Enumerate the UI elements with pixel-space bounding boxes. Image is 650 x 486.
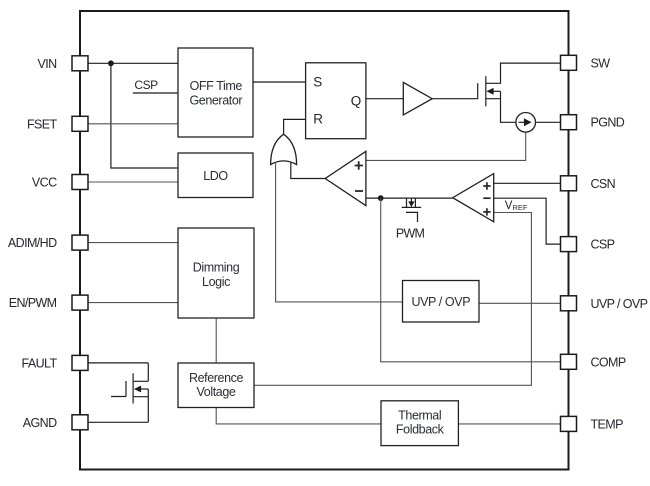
svg-text:R: R xyxy=(313,112,323,127)
svg-text:COMP: COMP xyxy=(591,355,626,369)
svg-text:UVP / OVP: UVP / OVP xyxy=(411,295,470,309)
svg-text:ADIM/HD: ADIM/HD xyxy=(8,236,57,250)
node VIN junction dot xyxy=(108,60,114,66)
svg-text:FSET: FSET xyxy=(27,117,58,131)
wire FAULT to fault FET drain xyxy=(88,362,148,364)
transistor Q3 fault FET xyxy=(111,363,148,422)
wire Dimming Logic to Reference Voltage xyxy=(215,318,217,363)
wire current sense to comparator U2 non-inverting input xyxy=(366,132,526,160)
OR gate xyxy=(271,134,297,164)
block Reference Voltage xyxy=(178,363,254,408)
svg-text:EN/PWM: EN/PWM xyxy=(9,296,57,310)
svg-text:Thermal: Thermal xyxy=(398,408,441,422)
svg-text:VCC: VCC xyxy=(32,176,57,190)
wire FSET to OFF Time Generator xyxy=(88,123,178,125)
wire ADIM/HD to Dimming Logic xyxy=(88,242,178,244)
wire latch Q to buffer xyxy=(366,98,403,100)
pin EN/PWM xyxy=(9,295,88,310)
wire EN/PWM to Dimming Logic xyxy=(88,302,178,304)
wire CSN to comparator U3 top input xyxy=(494,182,561,184)
pin PGND xyxy=(561,115,625,130)
svg-text:VIN: VIN xyxy=(37,57,57,71)
wire current sense to PGND xyxy=(536,121,561,123)
wire OR gate output to latch R xyxy=(284,119,306,134)
svg-text:PGND: PGND xyxy=(591,116,625,130)
transistor Q1 source stub and wire to current sense xyxy=(486,91,516,122)
svg-text:AGND: AGND xyxy=(23,416,57,430)
wire Reference Voltage to Thermal Foldback xyxy=(216,408,381,424)
svg-text:UVP / OVP: UVP / OVP xyxy=(591,297,648,311)
current sense circle xyxy=(516,113,536,133)
wire comparator U2 output to OR gate right input xyxy=(291,163,325,179)
transistor Q1 power MOSFET gate wire xyxy=(432,83,478,98)
wire UVP/OVP to OR gate left input xyxy=(276,163,403,302)
wire Thermal Foldback to TEMP xyxy=(458,423,560,425)
svg-text:CSN: CSN xyxy=(591,177,616,191)
svg-text:TEMP: TEMP xyxy=(591,417,624,431)
pin CSN xyxy=(561,176,616,191)
svg-text:Generator: Generator xyxy=(189,93,242,107)
svg-text:Reference: Reference xyxy=(189,371,244,385)
svg-text:PWM: PWM xyxy=(396,227,425,241)
block UVP / OVP xyxy=(403,281,480,323)
node COMP junction dot xyxy=(378,195,384,201)
svg-text:Q: Q xyxy=(351,94,362,109)
wire CSP to comparator U3 middle input xyxy=(494,198,561,244)
wire VIN to OFF Time Generator xyxy=(88,62,178,64)
pin SW xyxy=(561,55,611,70)
pin CSP xyxy=(561,237,615,252)
svg-text:FAULT: FAULT xyxy=(22,356,58,370)
wire comparator U3 output to comparator U2 inverting input xyxy=(366,197,453,199)
svg-text:Foldback: Foldback xyxy=(396,422,445,436)
wire VREF from Reference Voltage to comparator U3 bottom input xyxy=(254,213,531,386)
pin ADIM/HD xyxy=(8,235,88,250)
svg-text:SW: SW xyxy=(591,56,611,70)
transistor Q1 body arrow xyxy=(493,90,500,92)
comparator U3 xyxy=(453,174,494,222)
block LDO xyxy=(178,153,253,198)
svg-text:CSP: CSP xyxy=(134,78,158,92)
SR latch U1 xyxy=(306,63,366,139)
wire COMP junction to COMP pin xyxy=(381,198,561,362)
transistor Q2 PWM switch xyxy=(402,198,422,222)
pin UVP/OVP xyxy=(561,296,648,311)
svg-text:S: S xyxy=(313,74,322,89)
comparator U2 xyxy=(325,151,366,205)
block Dimming Logic xyxy=(178,228,254,318)
transistor Q1 channel bar xyxy=(485,76,487,106)
svg-text:Logic: Logic xyxy=(202,275,230,289)
svg-text:Voltage: Voltage xyxy=(197,385,236,399)
block Thermal Foldback xyxy=(381,401,458,446)
transistor Q1 drain stub and wire to SW xyxy=(486,63,561,83)
wire UVP/OVP block to UVP/OVP pin xyxy=(479,302,561,304)
svg-text:Dimming: Dimming xyxy=(193,261,240,275)
buffer amplifier xyxy=(403,82,432,115)
svg-text:CSP: CSP xyxy=(591,238,615,252)
pin FAULT xyxy=(22,355,88,370)
wire CSP input stub to OFF Time Generator xyxy=(133,92,178,94)
pin TEMP xyxy=(561,416,624,431)
svg-text:OFF Time: OFF Time xyxy=(190,79,243,93)
block OFF Time Generator xyxy=(178,48,253,137)
pin VIN xyxy=(37,56,88,71)
wire VCC to LDO xyxy=(88,181,178,183)
pin COMP xyxy=(561,354,626,369)
IC boundary box xyxy=(80,11,569,470)
wire VIN junction to LDO xyxy=(111,63,178,168)
pin AGND xyxy=(23,415,88,430)
pin FSET xyxy=(27,116,88,131)
wire AGND to fault FET source xyxy=(88,421,148,423)
svg-text:LDO: LDO xyxy=(203,169,228,183)
wire OFF Time Generator to latch S xyxy=(253,81,306,83)
pin VCC xyxy=(32,175,88,190)
